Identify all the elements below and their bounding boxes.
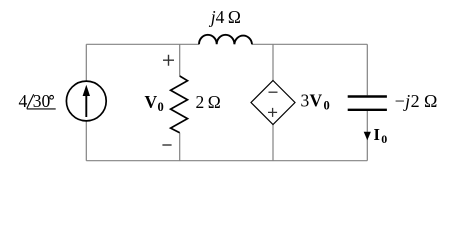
current source I1 circle — [66, 81, 106, 121]
svg-text:3: 3 — [301, 91, 310, 111]
wire left branch above source — [85, 44, 87, 81]
degree symbol — [50, 95, 54, 99]
wire top-left segment — [86, 43, 199, 45]
svg-text:V: V — [310, 91, 323, 111]
resistor plus sign — [163, 55, 174, 66]
wire capacitor branch top — [366, 44, 368, 95]
current I0 arrowhead — [364, 132, 371, 141]
svg-text:2 Ω: 2 Ω — [196, 92, 221, 112]
svg-text:I: I — [374, 125, 380, 144]
resistor minus sign — [162, 144, 171, 146]
inductor L1 — [199, 35, 252, 45]
wire resistor branch top — [179, 44, 181, 76]
wire bottom — [86, 160, 367, 162]
diamond plus sign — [268, 108, 277, 117]
capacitor C1 top plate — [348, 95, 387, 97]
svg-text:30: 30 — [33, 91, 51, 111]
svg-text:4: 4 — [19, 91, 28, 111]
wire dependent-source branch top — [272, 44, 274, 80]
svg-text:0: 0 — [381, 132, 387, 146]
angle symbol slash — [27, 94, 34, 108]
svg-text:j4 Ω: j4 Ω — [209, 7, 241, 27]
diamond minus sign — [269, 91, 278, 93]
dependent source E1 diamond — [251, 81, 295, 125]
svg-text:−j2 Ω: −j2 Ω — [395, 91, 438, 111]
wire resistor branch bottom — [179, 133, 181, 161]
svg-text:V: V — [145, 92, 158, 112]
wire capacitor branch bottom — [366, 111, 368, 161]
resistor R1 zigzag — [171, 76, 188, 133]
wire top-right segment — [252, 43, 367, 45]
wire dependent-source branch bottom — [272, 125, 274, 161]
current source I1 arrow — [85, 92, 87, 117]
angle symbol underline — [27, 108, 56, 110]
svg-text:0: 0 — [158, 100, 164, 114]
wire left branch below source — [85, 121, 87, 161]
capacitor C1 bottom plate — [348, 109, 387, 111]
svg-text:0: 0 — [324, 99, 330, 113]
